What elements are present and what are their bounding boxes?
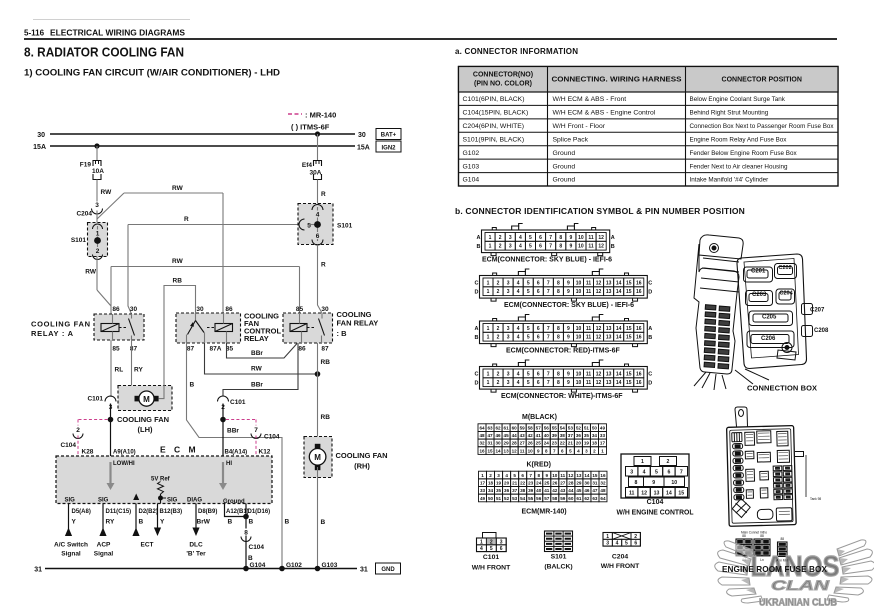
svg-text:29: 29 <box>504 441 510 446</box>
svg-text:1: 1 <box>487 380 490 386</box>
svg-text:RB: RB <box>321 414 331 421</box>
svg-text:C101: C101 <box>230 399 246 406</box>
svg-text:1: 1 <box>487 289 490 295</box>
svg-text:25: 25 <box>544 480 550 485</box>
wire <box>96 211 98 223</box>
svg-text:10: 10 <box>576 326 582 332</box>
svg-text:ENGINE ROOM FUSE BOX: ENGINE ROOM FUSE BOX <box>722 564 827 574</box>
svg-text:87: 87 <box>187 346 195 353</box>
svg-text:54: 54 <box>520 496 526 501</box>
svg-text:ECM(CONNECTOR: SKY BLUE) - IEF: ECM(CONNECTOR: SKY BLUE) - IEFI-6 <box>504 302 634 309</box>
svg-text:C104: C104 <box>249 544 265 551</box>
wire diagonal to relay A 86 <box>97 290 111 306</box>
svg-text:W/H ENGINE CONTROL: W/H ENGINE CONTROL <box>617 510 695 517</box>
svg-text:RW: RW <box>101 189 113 196</box>
svg-text:8: 8 <box>545 448 548 453</box>
svg-text:Intake Manifold '#4' Cylinder: Intake Manifold '#4' Cylinder <box>690 177 769 184</box>
svg-text:: B: : B <box>337 329 348 338</box>
svg-text:G103: G103 <box>322 562 338 569</box>
bus 30 <box>50 133 355 135</box>
svg-text:10A: 10A <box>92 168 104 175</box>
svg-text:C: C <box>648 281 652 287</box>
svg-text:ECM(MR-140): ECM(MR-140) <box>522 509 567 516</box>
svg-text:1: 1 <box>487 335 490 341</box>
svg-text:40: 40 <box>536 488 542 493</box>
svg-text:5: 5 <box>527 380 530 386</box>
svg-text:38: 38 <box>560 433 566 438</box>
svg-text:61: 61 <box>576 496 582 501</box>
svg-text:BBr: BBr <box>251 382 263 389</box>
svg-text:9: 9 <box>567 326 570 332</box>
svg-text:34: 34 <box>488 488 494 493</box>
svg-text:27: 27 <box>520 441 526 446</box>
svg-text:15: 15 <box>626 289 632 295</box>
svg-text:ECM(CONNECTOR: RED)-ITMS-6F: ECM(CONNECTOR: RED)-ITMS-6F <box>506 348 621 355</box>
svg-text:32: 32 <box>479 441 485 446</box>
ground G103 <box>315 566 321 572</box>
svg-text:48: 48 <box>479 433 485 438</box>
svg-text:4: 4 <box>519 244 522 250</box>
svg-text:31: 31 <box>487 441 493 446</box>
svg-text:S101(9PIN, BLACK): S101(9PIN, BLACK) <box>463 136 525 143</box>
svg-text:1: 1 <box>641 459 644 465</box>
svg-text:11: 11 <box>560 473 565 478</box>
svg-text:52: 52 <box>504 496 510 501</box>
svg-text:M(BLACK): M(BLACK) <box>522 414 557 421</box>
svg-text:Ground: Ground <box>553 150 576 157</box>
svg-text:(PIN NO. COLOR): (PIN NO. COLOR) <box>474 81 532 88</box>
svg-text:44: 44 <box>512 433 518 438</box>
svg-text:4: 4 <box>517 335 520 341</box>
svg-text:CONNECTING. WIRING HARNESS: CONNECTING. WIRING HARNESS <box>552 77 682 84</box>
svg-text:RL: RL <box>115 367 124 374</box>
terminal GND <box>376 563 401 574</box>
svg-text:38: 38 <box>520 488 526 493</box>
svg-text:7: 7 <box>547 380 550 386</box>
svg-text:7: 7 <box>547 289 550 295</box>
svg-text:10: 10 <box>552 473 558 478</box>
svg-text:87: 87 <box>321 346 329 353</box>
svg-text:14: 14 <box>616 326 622 332</box>
wire R <box>317 180 319 208</box>
motor: COOLING FAN (LH) <box>118 386 172 411</box>
svg-text:30A: 30A <box>310 170 322 177</box>
svg-text:58: 58 <box>552 496 558 501</box>
connection box illustration <box>694 235 813 390</box>
svg-text:Tank 98: Tank 98 <box>810 497 821 501</box>
svg-text:C203: C203 <box>752 292 767 298</box>
bus 31 <box>45 568 357 570</box>
svg-text:4: 4 <box>517 380 520 386</box>
svg-text:11: 11 <box>586 280 592 286</box>
svg-text:C207: C207 <box>810 308 825 314</box>
svg-text:B: B <box>139 519 144 526</box>
svg-text:37: 37 <box>568 433 574 438</box>
ground pins <box>225 504 247 517</box>
connector information table <box>459 67 839 187</box>
svg-text:18: 18 <box>488 480 494 485</box>
svg-text:11: 11 <box>588 235 594 241</box>
svg-text:45: 45 <box>576 488 582 493</box>
svg-text:8: 8 <box>557 335 560 341</box>
svg-text:17: 17 <box>600 441 606 446</box>
svg-text:ELECTRICAL WIRING DIAGRAMS: ELECTRICAL WIRING DIAGRAMS <box>50 29 186 38</box>
svg-text:54: 54 <box>560 425 566 430</box>
svg-text:8: 8 <box>537 473 540 478</box>
svg-text:4: 4 <box>519 235 522 241</box>
svg-text:G102: G102 <box>463 150 480 157</box>
svg-text:Ground: Ground <box>553 163 576 170</box>
svg-text:88: 88 <box>780 537 784 541</box>
header: page title <box>33 19 190 21</box>
svg-text:4: 4 <box>316 212 320 219</box>
svg-text:6: 6 <box>500 546 503 552</box>
svg-text:86: 86 <box>112 306 120 313</box>
control relay switch <box>195 313 197 321</box>
svg-text:RELAY: RELAY <box>244 334 269 343</box>
svg-text:S101: S101 <box>551 554 567 561</box>
svg-text:a. CONNECTOR INFORMATION: a. CONNECTOR INFORMATION <box>455 47 578 56</box>
relay: COOLING FAN CONTROL RELAY <box>176 313 241 343</box>
svg-text:14: 14 <box>666 490 672 496</box>
svg-text:K(RED): K(RED) <box>527 462 552 469</box>
svg-text:13: 13 <box>606 380 612 386</box>
svg-text:1: 1 <box>487 326 490 332</box>
svg-text:4: 4 <box>577 448 580 453</box>
svg-text:55: 55 <box>552 425 558 430</box>
svg-text:88: 88 <box>742 534 746 538</box>
svg-text:1: 1 <box>481 473 484 478</box>
svg-text:63: 63 <box>592 496 598 501</box>
svg-text:RW: RW <box>172 258 184 265</box>
svg-text:64: 64 <box>479 425 485 430</box>
svg-text:DIAG: DIAG <box>187 498 202 504</box>
watermark LANOS CLAN UKRAINIAN CLUB <box>715 540 874 603</box>
svg-text:15: 15 <box>592 473 598 478</box>
svg-text:3: 3 <box>507 280 510 286</box>
svg-text:COOLING FAN: COOLING FAN <box>117 415 169 424</box>
svg-text:59: 59 <box>520 425 526 430</box>
svg-text:Y: Y <box>160 519 165 526</box>
fuse Ef4 30A <box>314 161 322 167</box>
svg-text:55: 55 <box>528 496 534 501</box>
svg-text:COOLING FAN: COOLING FAN <box>31 320 91 329</box>
svg-text:Connection Box Next to Passeng: Connection Box Next to Passenger Room Fu… <box>690 123 835 130</box>
svg-text:(BALCK): (BALCK) <box>544 564 572 571</box>
connector C204 W/H FRONT <box>603 533 640 547</box>
wire BBr control85-relayB86 <box>227 343 298 358</box>
svg-text:16: 16 <box>636 280 642 286</box>
svg-text:10: 10 <box>578 235 584 241</box>
terminal IGN2 <box>376 141 401 152</box>
svg-text:8: 8 <box>635 480 638 486</box>
svg-text:RB: RB <box>173 278 183 285</box>
svg-text:6: 6 <box>561 448 564 453</box>
svg-text:6: 6 <box>316 233 320 240</box>
svg-text:5: 5 <box>527 335 530 341</box>
svg-text:30: 30 <box>584 480 590 485</box>
svg-text:7: 7 <box>547 280 550 286</box>
svg-text:4: 4 <box>480 546 483 552</box>
svg-text:BrW: BrW <box>197 519 211 526</box>
svg-text:14: 14 <box>616 335 622 341</box>
svg-text:3: 3 <box>507 371 510 377</box>
svg-text:5V Ref: 5V Ref <box>151 477 171 483</box>
svg-text:7: 7 <box>549 235 552 241</box>
svg-text:Signal: Signal <box>94 551 114 558</box>
svg-text:LOW/HI: LOW/HI <box>113 461 135 467</box>
svg-text:16: 16 <box>636 289 642 295</box>
svg-text:43: 43 <box>520 433 526 438</box>
svg-text:85: 85 <box>112 346 120 353</box>
svg-text:3: 3 <box>507 326 510 332</box>
svg-text:2: 2 <box>497 371 500 377</box>
svg-text:49: 49 <box>600 425 606 430</box>
svg-text:6: 6 <box>537 335 540 341</box>
svg-text:C204: C204 <box>76 211 92 218</box>
svg-text:7: 7 <box>254 427 258 434</box>
svg-text:11: 11 <box>586 371 592 377</box>
wire RW rail <box>111 266 300 268</box>
svg-text:29: 29 <box>576 480 582 485</box>
svg-text:B: B <box>611 244 615 250</box>
svg-text:37: 37 <box>512 488 518 493</box>
svg-text:57: 57 <box>536 425 542 430</box>
svg-text:C101(6PIN, BLACK): C101(6PIN, BLACK) <box>463 96 525 103</box>
svg-text:41: 41 <box>536 433 542 438</box>
svg-text:16: 16 <box>636 335 642 341</box>
svg-text:M: M <box>314 453 321 462</box>
wire BBr relayB86 to C101 <box>223 343 298 396</box>
svg-text:13: 13 <box>504 448 510 453</box>
svg-text:B: B <box>249 519 254 526</box>
svg-text:24: 24 <box>536 480 542 485</box>
svg-text:11: 11 <box>586 380 592 386</box>
svg-text:53: 53 <box>568 425 574 430</box>
svg-text:2: 2 <box>497 289 500 295</box>
wire <box>317 134 319 161</box>
svg-text:(LH): (LH) <box>138 425 153 434</box>
svg-text:6: 6 <box>537 380 540 386</box>
svg-text:40: 40 <box>544 433 550 438</box>
svg-text:W/H FRONT: W/H FRONT <box>601 563 640 570</box>
svg-text:1: 1 <box>487 280 490 286</box>
wire RW <box>96 180 98 203</box>
engine room fuse box illustration <box>727 407 806 526</box>
svg-text:56: 56 <box>544 425 550 430</box>
svg-text:7: 7 <box>549 244 552 250</box>
svg-text:9: 9 <box>569 244 572 250</box>
svg-text:6: 6 <box>537 280 540 286</box>
svg-text:11: 11 <box>586 335 592 341</box>
ECM pin wires <box>68 504 70 537</box>
connector C101 pin 2 <box>218 396 229 402</box>
svg-text:31: 31 <box>360 567 368 574</box>
svg-text:33: 33 <box>600 433 606 438</box>
svg-text:ECM(CONNECTOR: WHITE)-ITMS-6F: ECM(CONNECTOR: WHITE)-ITMS-6F <box>501 393 623 400</box>
svg-text:C104: C104 <box>647 499 664 506</box>
svg-text:CLAN: CLAN <box>771 577 830 593</box>
svg-text:5: 5 <box>513 473 516 478</box>
svg-text:C101: C101 <box>87 396 103 403</box>
svg-text:2: 2 <box>499 244 502 250</box>
svg-text:Fender Next to Air cleaner Hou: Fender Next to Air cleaner Housing <box>690 163 788 170</box>
svg-text:8: 8 <box>244 530 248 537</box>
svg-text:2: 2 <box>96 248 100 255</box>
junction on bus 30 <box>315 131 320 136</box>
svg-text:3: 3 <box>606 541 609 547</box>
svg-text:50: 50 <box>488 496 494 501</box>
svg-text:5: 5 <box>307 223 311 230</box>
svg-text:35: 35 <box>496 488 502 493</box>
svg-text:C: C <box>648 372 652 378</box>
svg-text:15: 15 <box>678 490 684 496</box>
svg-text:3: 3 <box>509 244 512 250</box>
svg-text:A12(B1): A12(B1) <box>226 509 249 515</box>
svg-text:23: 23 <box>552 441 558 446</box>
svg-text:22: 22 <box>520 480 526 485</box>
svg-text:RW: RW <box>172 185 184 192</box>
svg-text:43: 43 <box>560 488 566 493</box>
svg-text:D5(A8): D5(A8) <box>72 509 91 515</box>
svg-text:39: 39 <box>552 433 558 438</box>
svg-text:11: 11 <box>588 244 594 250</box>
svg-text:12: 12 <box>596 371 602 377</box>
svg-text:15: 15 <box>626 371 632 377</box>
svg-text:88: 88 <box>760 534 764 538</box>
svg-text:28: 28 <box>568 480 574 485</box>
svg-text:Below Engine Coolant Surge Tan: Below Engine Coolant Surge Tank <box>690 96 786 103</box>
svg-text:R: R <box>184 216 189 223</box>
dashed link to C104 pin 7 <box>226 419 256 421</box>
svg-text:8: 8 <box>557 289 560 295</box>
svg-text:B: B <box>475 335 479 341</box>
relay A coil <box>101 324 119 332</box>
svg-text:11: 11 <box>520 448 525 453</box>
svg-text:8. RADIATOR COOLING FAN: 8. RADIATOR COOLING FAN <box>24 46 184 60</box>
fuse box lower connectors <box>736 539 752 556</box>
svg-text:Ground: Ground <box>223 499 245 505</box>
svg-text:30: 30 <box>196 306 204 313</box>
svg-text:30: 30 <box>130 306 138 313</box>
svg-text:3: 3 <box>507 335 510 341</box>
svg-text:2: 2 <box>499 235 502 241</box>
svg-text:8: 8 <box>557 380 560 386</box>
svg-text:27: 27 <box>560 480 566 485</box>
svg-text:59: 59 <box>560 496 566 501</box>
svg-text:1: 1 <box>601 448 604 453</box>
svg-text:BBr: BBr <box>251 350 263 357</box>
svg-text:6: 6 <box>537 326 540 332</box>
svg-text:FAN RELAY: FAN RELAY <box>337 319 379 328</box>
svg-text:D8(B9): D8(B9) <box>198 509 217 515</box>
svg-text:DLC: DLC <box>189 542 203 549</box>
svg-text:3: 3 <box>507 380 510 386</box>
svg-text:F19: F19 <box>80 162 92 169</box>
svg-text:12: 12 <box>568 473 574 478</box>
svg-text:30: 30 <box>496 441 502 446</box>
svg-text:9: 9 <box>569 235 572 241</box>
svg-text:G103: G103 <box>463 163 480 170</box>
svg-text:19: 19 <box>584 441 590 446</box>
connector diagram ECM(CONNECTOR: WHITE)-ITMS-6F <box>480 367 648 390</box>
wire RB from fan LH to control relay 30 <box>159 286 196 399</box>
svg-text:5: 5 <box>625 541 628 547</box>
svg-text:15: 15 <box>487 448 493 453</box>
svg-text:(RH): (RH) <box>354 462 370 471</box>
connector C104 W/H ENGINE CONTROL <box>621 454 689 498</box>
svg-text:SIG: SIG <box>98 498 109 504</box>
svg-text:RELAY : A: RELAY : A <box>31 329 74 338</box>
svg-text:10: 10 <box>576 380 582 386</box>
svg-text:5: 5 <box>527 371 530 377</box>
svg-text:RY: RY <box>106 519 115 526</box>
svg-text:16: 16 <box>479 448 485 453</box>
svg-text:61: 61 <box>504 425 510 430</box>
svg-text:28: 28 <box>512 441 518 446</box>
svg-text:C104: C104 <box>264 434 280 441</box>
svg-text:19: 19 <box>496 480 502 485</box>
svg-text:5: 5 <box>527 289 530 295</box>
svg-text:3: 3 <box>497 473 500 478</box>
wires through splice <box>317 207 319 241</box>
svg-text:( ) ITMS-6F: ( ) ITMS-6F <box>291 123 330 132</box>
motor: COOLING FAN (RH) <box>304 437 332 478</box>
ground G102 <box>279 566 285 572</box>
gray arrow LOW/HI <box>109 462 111 483</box>
svg-text:GND: GND <box>381 567 395 573</box>
svg-text:39: 39 <box>528 488 534 493</box>
svg-text:14: 14 <box>616 371 622 377</box>
svg-text:10: 10 <box>576 371 582 377</box>
wire RW 87A junction <box>205 343 318 374</box>
svg-text:D11(C15): D11(C15) <box>106 509 132 515</box>
svg-text:15: 15 <box>626 280 632 286</box>
svg-text:6: 6 <box>667 469 670 475</box>
svg-text:46: 46 <box>584 488 590 493</box>
svg-text:D2(B2): D2(B2) <box>139 509 158 515</box>
svg-text:R: R <box>321 262 326 269</box>
svg-text:48: 48 <box>600 488 606 493</box>
svg-text:10: 10 <box>576 335 582 341</box>
svg-text:B: B <box>648 335 652 341</box>
svg-text:A: A <box>477 235 481 241</box>
svg-text:33: 33 <box>480 488 486 493</box>
svg-text:63: 63 <box>487 425 493 430</box>
svg-text:5: 5 <box>529 235 532 241</box>
svg-text:W/H ECM & ABS - Engine Control: W/H ECM & ABS - Engine Control <box>553 110 656 117</box>
svg-text:RY: RY <box>134 367 143 374</box>
svg-text:B: B <box>321 519 326 526</box>
svg-text:7: 7 <box>680 469 683 475</box>
svg-text:15: 15 <box>626 335 632 341</box>
svg-text:3: 3 <box>630 469 633 475</box>
svg-text:COOLING FAN: COOLING FAN <box>336 451 388 460</box>
svg-text:20: 20 <box>504 480 510 485</box>
svg-text:42: 42 <box>528 433 534 438</box>
svg-text:15A: 15A <box>357 145 370 152</box>
svg-text:16: 16 <box>600 473 606 478</box>
fuse F19 10A <box>93 161 101 167</box>
svg-text:8: 8 <box>559 244 562 250</box>
svg-text:46: 46 <box>496 433 502 438</box>
svg-text:1: 1 <box>487 371 490 377</box>
svg-text:6: 6 <box>539 235 542 241</box>
svg-text:11: 11 <box>586 289 592 295</box>
svg-text:8: 8 <box>557 326 560 332</box>
svg-text:5: 5 <box>529 244 532 250</box>
svg-text:52: 52 <box>576 425 582 430</box>
